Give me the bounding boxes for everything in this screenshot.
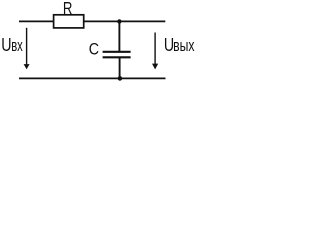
wire bottom rail <box>19 77 166 79</box>
capacitor C <box>103 52 131 58</box>
arrow output voltage <box>152 33 158 70</box>
node junction bottom <box>118 76 123 81</box>
svg-text:вх: вх <box>11 36 23 55</box>
wire top rail <box>19 20 165 22</box>
arrow input voltage <box>24 28 30 70</box>
label U вых <box>164 35 195 55</box>
svg-text:C: C <box>89 41 99 59</box>
svg-text:вых: вых <box>173 37 195 55</box>
svg-text:R: R <box>63 0 73 18</box>
wire capacitor branch lower <box>119 57 121 78</box>
node junction top <box>117 19 121 23</box>
wire capacitor branch upper <box>118 21 120 51</box>
label U вх <box>1 35 23 55</box>
svg-text:U: U <box>1 35 11 55</box>
resistor R <box>54 15 84 28</box>
